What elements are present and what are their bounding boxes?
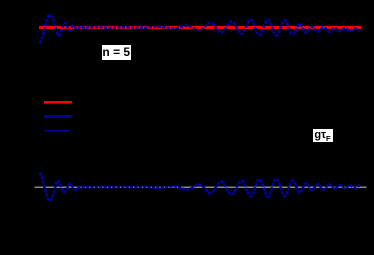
gray axis line (bottom plot)	[34, 186, 366, 188]
legend: red solid line	[44, 101, 72, 104]
label box "n = 5"	[102, 45, 131, 61]
top blue dotted curve	[39, 15, 359, 43]
label box "g tau_F"	[313, 129, 333, 143]
legend: navy thin line	[44, 130, 70, 132]
legend: navy thick line	[44, 115, 72, 118]
bottom blue dotted curve	[39, 173, 360, 201]
red solid baseline (top plot)	[39, 26, 361, 29]
